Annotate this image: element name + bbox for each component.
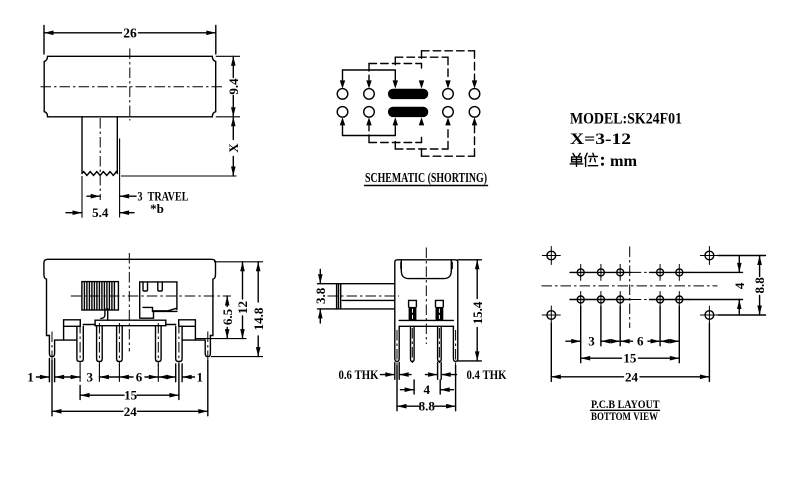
top view: stem center line	[99, 118, 101, 200]
front view: shared arrow segment foot to pin 1	[55, 375, 81, 380]
side view: arrow segment left of pin B	[426, 372, 438, 377]
pcb layout: pin holes row 2	[577, 292, 683, 308]
front view: base plate	[95, 320, 166, 326]
svg-text:24: 24	[625, 369, 639, 384]
front view: pin 3	[117, 326, 123, 362]
top view: dimension 26 line and arrows	[44, 31, 216, 36]
schematic: terminal circles row 2	[337, 107, 480, 118]
top view: dimension text X	[226, 143, 241, 153]
front view: pin 1 extension line	[79, 364, 81, 382]
pcb layout: dimension 3 left arrow	[566, 339, 581, 344]
side view: pin B center line	[438, 328, 440, 366]
front view: dimension 24 extension lines	[52, 361, 208, 416]
svg-text:15.4: 15.4	[470, 301, 485, 324]
svg-text:X: X	[226, 143, 241, 153]
front view: right mounting foot	[195, 336, 210, 357]
front view: pin 4	[156, 326, 162, 362]
svg-text:3.8: 3.8	[313, 287, 328, 304]
pcb layout: row 1 center line	[570, 271, 690, 273]
front view: knob knurling hatch lines	[84, 282, 114, 309]
side view: dimension 4 arrows	[401, 387, 454, 392]
pcb layout: dimension 24 line and arrows	[551, 375, 709, 380]
svg-text:0.6 THK: 0.6 THK	[339, 367, 380, 382]
top view: travel position extension line	[119, 139, 121, 218]
front view: shared arrow segment pin 4 to pin 5	[158, 375, 175, 380]
schematic: wire dashed bottom (bar right to pos6)	[422, 126, 475, 156]
side view: dimension 8.8 line and arrows	[397, 404, 456, 409]
front view: left bracket	[64, 320, 81, 340]
side view: cover seam	[401, 260, 451, 279]
top view: stem break (zigzag) line	[82, 172, 118, 176]
top view: dimension 3 travel arrows	[87, 194, 136, 199]
side view: left foot extension lines	[395, 363, 399, 380]
top view: stem left edge extension line	[81, 176, 83, 218]
front view: mechanism thick contact band	[153, 310, 171, 312]
pcb layout: vertical center line	[629, 247, 631, 329]
front view: mechanism block outline	[140, 282, 177, 318]
pcb layout: dimension text 4	[732, 282, 747, 289]
svg-text:0.4 THK: 0.4 THK	[467, 367, 508, 382]
schematic: shorting bar row 1	[388, 89, 428, 99]
front view: dimension 24 line and arrows	[52, 409, 208, 414]
front view: right bracket	[179, 320, 196, 340]
note: unit colon and mm text	[601, 157, 604, 160]
pcb layout: dimension 6 line and arrows	[620, 339, 660, 344]
pcb layout: corner hole top left	[542, 247, 560, 265]
side view: pin A center line	[411, 328, 413, 366]
front view: contact wedge	[168, 308, 177, 311]
front view: dimension 6 line and arrows	[119, 375, 158, 380]
pcb layout: horizontal center line	[542, 285, 718, 287]
pcb layout: title underline	[591, 409, 660, 411]
side view: arrow segment right of left foot	[399, 372, 411, 377]
schematic: title underline	[365, 185, 488, 187]
pcb layout: row 2 center line	[570, 299, 690, 301]
front view: dimension 1 left arrow	[37, 375, 50, 380]
front view: ledge line left	[83, 324, 95, 326]
top view: body top edge extension line	[216, 55, 240, 57]
pcb layout: shared arrow segment hole 2 to 3	[601, 339, 620, 344]
front view: vertical center line	[128, 253, 130, 352]
schematic: wire dashed top (bar right to pos6)	[422, 51, 475, 80]
schematic: terminal circles row 1	[337, 89, 480, 100]
svg-text:26: 26	[123, 25, 137, 40]
front view: extension line at bracket bottom	[196, 338, 247, 340]
front view: dimension text 6.5	[220, 308, 235, 325]
side view: right foot center line	[455, 330, 457, 366]
side view: base plate lines	[399, 320, 453, 326]
svg-text:6: 6	[136, 369, 143, 384]
side view: left foot center line	[396, 330, 398, 366]
front view: left mounting foot	[49, 336, 63, 357]
top view: body bottom edge extension line	[216, 116, 240, 118]
pcb layout: corner hole top right	[700, 247, 718, 265]
pcb layout: dimension 24 extension lines	[551, 324, 709, 382]
schematic: wire dashed bottom (bar left to pos5)	[395, 126, 448, 149]
top view: dimension 26 extension lines	[44, 26, 216, 55]
front view: extension line at body top right	[214, 261, 263, 263]
svg-text:4: 4	[424, 382, 431, 397]
side view: dimension 4 extension lines	[414, 380, 440, 394]
note: unit label (CJK dan-wei) strokes	[570, 153, 598, 166]
schematic: shorting bar row 2	[388, 107, 428, 117]
pcb layout: dimension 8.8 line and arrows	[757, 256, 762, 316]
front view: left foot center line	[51, 332, 53, 361]
side view: actuator inner line	[342, 299, 395, 301]
top view: dimension 9.4 line and arrows	[231, 56, 236, 117]
top view: dimension 5.4 arrows	[66, 210, 134, 215]
svg-text:1: 1	[197, 369, 204, 384]
svg-text:12: 12	[235, 301, 250, 314]
top view: dimension text 9.4	[226, 78, 241, 95]
front view: pin 1	[77, 326, 83, 361]
front view: pin 2 center line	[98, 323, 100, 366]
side view: dimension 0.4 arrow	[441, 372, 456, 377]
side view: dimension 15.4 line and arrows	[475, 260, 480, 361]
svg-text:BOTTOM VIEW: BOTTOM VIEW	[591, 409, 658, 423]
svg-text:6: 6	[637, 334, 644, 349]
front view: left foot extension lines	[49, 359, 54, 382]
side view: vertical center line	[425, 248, 427, 345]
pcb layout: pin hole extension lines down	[581, 307, 680, 363]
top view: actuator stem left edge	[81, 117, 83, 173]
front view: knurled knob outline	[82, 282, 119, 310]
front view: mechanism notch 2	[158, 282, 163, 291]
side view: contact clip A body	[409, 307, 417, 321]
front view: dimension 6.5 line and arrows	[225, 296, 230, 339]
front view: pin 1 center line	[79, 323, 81, 366]
top view: switch body outline	[44, 56, 216, 117]
svg-text:6.5: 6.5	[220, 308, 235, 325]
pcb layout: corner hole extension lines right	[718, 256, 766, 316]
svg-text:24: 24	[124, 404, 138, 419]
front view: dimension text 12	[235, 301, 250, 314]
top view: vertical center line	[129, 49, 131, 121]
svg-text:mm: mm	[610, 153, 637, 170]
svg-text:8.8: 8.8	[752, 277, 767, 294]
svg-text:9.4: 9.4	[226, 78, 241, 95]
side view: cover seam hook ticks	[401, 263, 452, 269]
side view: body outline	[395, 260, 458, 362]
svg-text:8.8: 8.8	[419, 399, 436, 414]
front view: pin 5	[176, 326, 182, 361]
svg-text:5.4: 5.4	[92, 205, 109, 220]
svg-text:1: 1	[27, 369, 34, 384]
schematic: wire dashed top (pos2 to bar right)	[369, 64, 422, 81]
front view: right foot center line	[207, 332, 209, 361]
side view: dimension 8.8 extension lines	[397, 366, 456, 411]
schematic: wire solid bottom (pos1 to bar left)	[340, 117, 398, 135]
front view: pin 4 center line	[157, 323, 159, 366]
pcb layout: pin holes row 1	[577, 264, 683, 280]
svg-text:4: 4	[732, 282, 747, 289]
svg-text:X=3-12: X=3-12	[570, 131, 631, 148]
side view: dimension 3.8 arrows	[318, 270, 323, 324]
svg-text:MODEL:SK24F01: MODEL:SK24F01	[570, 110, 682, 127]
front view: pin 3 extension line	[118, 364, 120, 382]
pcb layout: dimension 4 arrows	[737, 257, 742, 316]
top view: horizontal center line	[41, 86, 225, 88]
front view: pin 4 extension line	[157, 364, 159, 382]
pcb layout: shared arrow segment hole 4 to 5	[660, 339, 679, 344]
side view: pin A	[411, 326, 415, 361]
svg-text:14.8: 14.8	[251, 307, 266, 330]
front view: ledge line right	[166, 324, 176, 326]
svg-text:SCHEMATIC (SHORTING): SCHEMATIC (SHORTING)	[365, 170, 487, 185]
front view: dimension 14.8 line and arrows	[256, 262, 261, 357]
side view: contact clip A outline	[409, 300, 417, 307]
front view: horizontal center line	[71, 295, 231, 297]
front view: dimension text 14.8	[251, 307, 266, 330]
front view: mechanism notch 1	[143, 282, 148, 291]
side view: dimension 0.6 arrow	[381, 372, 395, 377]
side view: dimension text 3.8	[313, 287, 328, 304]
side view: pin B extension lines	[438, 363, 442, 380]
schematic: wire dashed bottom (pos2 to bar right)	[369, 126, 422, 143]
top view: extension line at stem end (X dimension)	[121, 175, 237, 177]
svg-text:3: 3	[588, 334, 595, 349]
svg-text:3: 3	[87, 369, 94, 384]
side view: actuator lever	[337, 284, 395, 309]
front view: extension line at foot bottom right	[211, 356, 263, 358]
front view: pin 3 center line	[118, 323, 120, 366]
pcb layout: dimension 15 line and arrows	[581, 356, 680, 361]
front view: pin 5 center line	[178, 323, 180, 366]
front view: pin 2 extension line	[98, 364, 100, 382]
side view: dimension 3.8 extension lines	[318, 284, 337, 309]
front view: dimension 1 right arrow	[182, 375, 194, 380]
front view: pin 2	[97, 326, 103, 362]
svg-text:*b: *b	[150, 201, 164, 216]
front view: pin 5 extension lines	[176, 364, 182, 382]
schematic: wire dashed top (bar left to pos5)	[395, 57, 448, 80]
front view: body outline with corner notches	[44, 259, 216, 335]
side view: pin B	[438, 326, 442, 361]
schematic: wire solid top (pos1 to bar left)	[340, 70, 398, 89]
pcb layout: corner hole bottom left	[542, 306, 560, 324]
top view: actuator stem right edge	[116, 117, 118, 173]
side view: actuator center line	[328, 295, 400, 297]
front view: dimension 12 line and arrows	[240, 262, 245, 339]
svg-text:15: 15	[623, 351, 637, 366]
svg-text:15: 15	[124, 388, 138, 403]
side view: contact clip B outline	[436, 300, 444, 307]
front view: dimension 15 line and arrows	[80, 393, 179, 398]
pcb layout: dimension text 8.8	[752, 277, 767, 294]
side view: dimension 15.4 extension lines	[458, 260, 482, 361]
pcb layout: row extension lines right	[690, 272, 743, 299]
top view: dimension X line and arrows	[231, 117, 236, 176]
front view: knob stem	[101, 309, 108, 320]
pcb layout: corner hole bottom right	[700, 306, 718, 324]
side view: dimension text 15.4	[470, 301, 485, 324]
front view: dimension 15 extension lines	[80, 364, 179, 400]
front view: arrow segment pin 2 to pin 3	[99, 375, 119, 380]
side view: contact clip B body	[436, 307, 444, 321]
